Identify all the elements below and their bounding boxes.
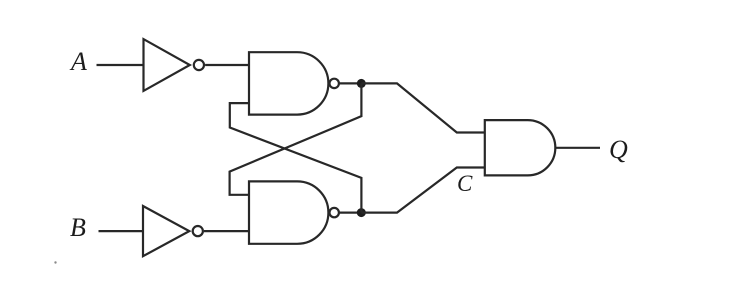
wire U2 bubble to node (339, 82, 361, 84)
node junction dot (U3 output) (357, 208, 366, 217)
inverter U1 (input A) (144, 39, 190, 91)
svg-text:C: C (457, 171, 473, 196)
wire U4 output to NAND U3 input (204, 230, 249, 232)
wire B input (99, 230, 144, 232)
wire A input (97, 64, 144, 66)
stray speck (54, 261, 56, 263)
NAND gate U3 (bottom) (249, 181, 328, 243)
NAND U3 output bubble (330, 208, 339, 217)
inverter U4 (input B) (143, 206, 189, 256)
inverter U1 output bubble (194, 60, 204, 70)
wire node1 cross-coupled to NAND U3 upper input (230, 83, 362, 194)
svg-text:A: A (69, 47, 87, 76)
wire U3 bubble to node (339, 212, 361, 214)
NAND U2 output bubble (330, 79, 339, 88)
AND gate U5 (output) (485, 120, 556, 175)
wire U1 output to NAND U2 input (205, 64, 249, 66)
svg-text:Q: Q (609, 135, 628, 164)
NAND gate U2 (top) (249, 52, 328, 114)
node junction dot (U2 output) (357, 79, 366, 88)
svg-text:B: B (70, 213, 86, 242)
wire node2 cross-coupled to NAND U2 lower input (230, 103, 362, 213)
inverter U4 output bubble (193, 226, 203, 236)
wire Q output (555, 147, 600, 149)
wire node2 to AND gate lower input (361, 168, 485, 213)
wire node1 to AND gate upper input (361, 83, 485, 132)
